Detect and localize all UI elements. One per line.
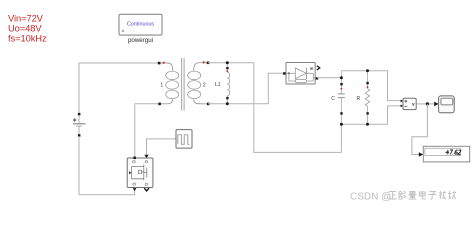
transformer T1 primary lead top	[159, 63, 173, 71]
transformer T1 secondary lead top	[194, 63, 208, 71]
transformer port dot secondary bottom	[207, 103, 210, 106]
display value 47.62	[446, 150, 461, 154]
wire pulse generator to MOSFET gate	[147, 139, 177, 155]
svg-text:Continuous: Continuous	[127, 22, 155, 28]
annotation Vin=72V Uo=48V fs=10kHz	[8, 13, 47, 44]
MOSFET m output arrow bottom-right	[144, 188, 149, 191]
DC voltage source Vdc	[73, 113, 86, 137]
capacitor C	[331, 71, 345, 124]
transformer polarity dot primary	[163, 62, 165, 64]
junction C bottom	[340, 123, 343, 126]
wire secondary top rail to L1 and corner down to load bottom	[208, 63, 342, 153]
svg-text:CSDN @: CSDN @	[350, 191, 391, 202]
junction R top	[366, 69, 369, 72]
svg-text:2: 2	[203, 82, 206, 88]
junction R bottom	[366, 123, 369, 126]
transformer T1 secondary lead bottom	[194, 99, 208, 104]
MOSFET source arrow bottom-left	[133, 188, 137, 191]
svg-text:powergui: powergui	[128, 37, 153, 44]
wire load bottom rail to voltage measurement -	[341, 106, 403, 124]
svg-text:L1: L1	[215, 82, 221, 88]
wire left rail lower	[78, 136, 80, 195]
junction L1 bottom	[226, 102, 229, 105]
wire top-left rail	[79, 62, 159, 64]
transformer T1 primary lead bottom	[160, 99, 173, 104]
wire VM output to scope	[416, 103, 434, 105]
wire bottom rail	[79, 188, 135, 195]
wire left rail upper	[78, 63, 80, 114]
junction L1 top	[226, 61, 229, 64]
wire VM junction down to display	[412, 104, 428, 155]
transformer polarity dot secondary	[203, 61, 205, 63]
arrow gate into MOSFET	[144, 155, 148, 158]
voltage measurement block VM	[401, 98, 417, 109]
wire secondary bottom rail up to diode input	[208, 73, 284, 104]
wire diode output to C branch	[317, 77, 342, 79]
transformer core	[182, 58, 184, 111]
pulse generator block	[176, 130, 192, 149]
transformer port dot primary top	[158, 62, 161, 65]
arrow into display	[419, 152, 423, 156]
junction VM output	[426, 102, 429, 105]
arrow into scope	[434, 102, 438, 107]
MOSFET block Q1	[127, 157, 153, 188]
watermark hanzi strokes	[389, 191, 456, 199]
svg-text:fs=10kHz: fs=10kHz	[8, 33, 47, 44]
inductor L1	[215, 63, 230, 104]
svg-text:R: R	[356, 96, 360, 102]
svg-text:C: C	[331, 96, 335, 102]
transformer T1 primary winding loops	[166, 71, 179, 99]
diode block D1	[283, 63, 320, 85]
display block 47.62	[423, 146, 469, 162]
wire load top rail to voltage measurement +	[341, 71, 403, 101]
wire primary bottom to MOSFET drain	[135, 104, 159, 158]
svg-text:1: 1	[160, 82, 163, 88]
transformer T1 secondary winding loops	[188, 71, 201, 99]
watermark CSDN	[350, 191, 391, 202]
transformer port dot secondary top	[207, 62, 210, 65]
transformer port dot primary bottom	[158, 103, 161, 106]
powergui block	[119, 14, 162, 44]
scope block	[439, 96, 455, 113]
junction diode output at C	[340, 76, 343, 79]
resistor R	[356, 71, 369, 124]
